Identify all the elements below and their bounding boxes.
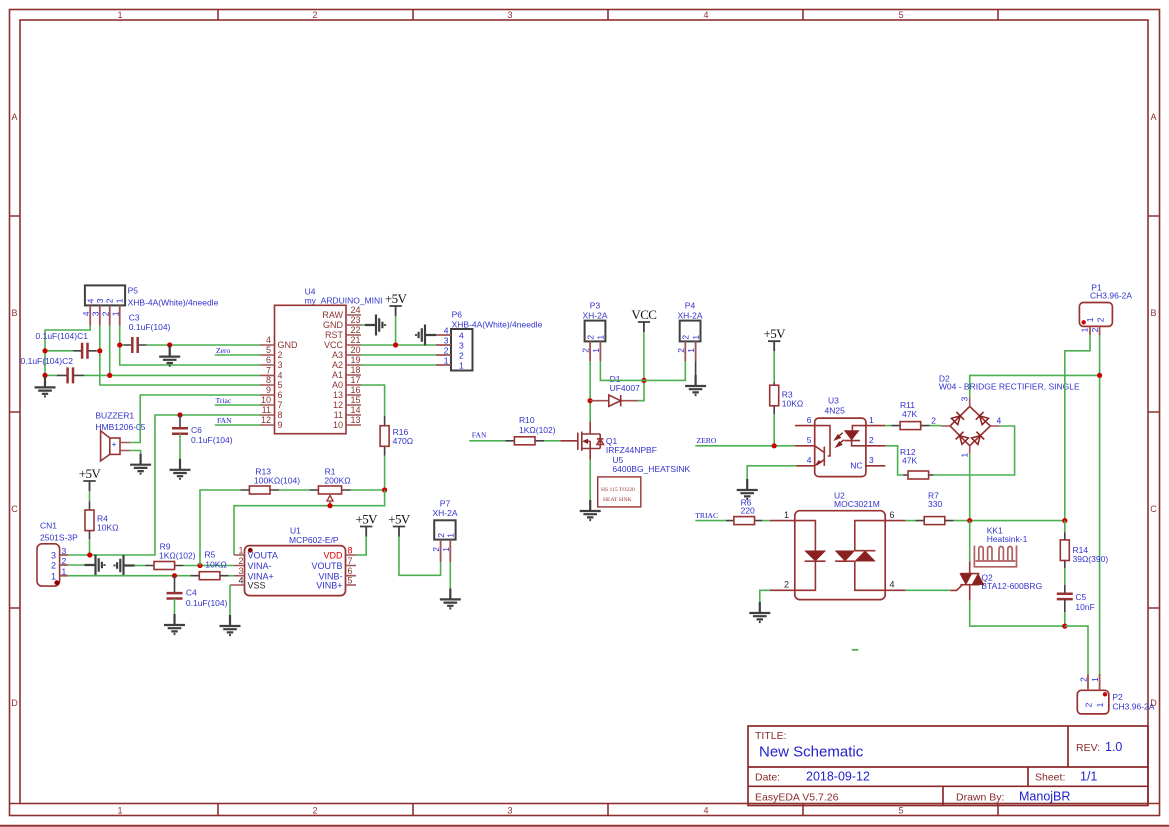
svg-text:1/1: 1/1 [1080,770,1097,784]
svg-text:0.1uF(104): 0.1uF(104) [129,322,171,332]
svg-text:1: 1 [62,567,67,577]
svg-text:8: 8 [348,545,353,555]
svg-text:4: 4 [444,326,449,336]
svg-text:5: 5 [807,435,812,445]
svg-text:1: 1 [117,10,122,20]
svg-text:1.0: 1.0 [1105,740,1122,754]
svg-text:A: A [11,112,17,122]
ground under U3.4 [737,479,758,499]
svg-text:P3: P3 [590,300,601,310]
ground under P4.1 [685,375,706,395]
wire C2 left [45,374,57,376]
resistor R16 [380,426,389,447]
U4 left pin names [278,340,299,430]
svg-text:2: 2 [100,311,110,316]
junction C4 top [172,573,177,578]
U4 left pin numbers [261,335,271,425]
svg-text:GND: GND [323,320,344,330]
svg-text:P5: P5 [128,286,139,296]
wire U4.20 A3 to P6.2 [361,354,436,356]
svg-text:NC: NC [850,461,862,471]
connector P3 box [585,321,606,342]
wire C5 node to P2.2 [1065,626,1088,674]
wire U2.2 to ground [760,590,770,602]
svg-text:2: 2 [869,435,874,445]
P1 pin numbers outside [1080,327,1101,332]
svg-text:5: 5 [278,380,283,390]
wire C6 bottom [179,434,181,459]
ground under U2.2 [749,602,770,622]
resistor R3 leads [773,383,775,415]
svg-text:21: 21 [351,335,361,345]
resistor R7 [924,517,945,525]
svg-text:11: 11 [334,410,343,420]
svg-text:C5: C5 [1075,592,1086,602]
P5 pin lines [90,305,120,325]
wire Zero stub to U4.5 [215,354,260,356]
svg-text:2: 2 [459,350,464,360]
ground at C3 right [159,346,180,366]
svg-text:7: 7 [348,556,353,566]
resistor R14 [1060,540,1069,561]
svg-text:13: 13 [333,390,343,400]
U4 right pin lines [346,315,361,425]
resistor R5 leads [190,575,228,577]
svg-text:1: 1 [869,415,874,425]
junction R3 / ZERO [772,443,777,448]
svg-text:CH3.96-2A: CH3.96-2A [1112,702,1154,712]
svg-text:B: B [11,308,17,318]
svg-text:+: + [112,439,117,449]
heatsink U5 box [598,477,641,507]
svg-text:4N25: 4N25 [825,406,846,416]
junction R1 wiper on U1.1 wire [327,503,332,508]
U1 left pin names [248,551,278,582]
wire +5V to R3 [773,351,775,382]
svg-text:2: 2 [105,298,115,303]
svg-text:3: 3 [91,311,101,316]
svg-text:VINB+: VINB+ [316,581,342,591]
power +5V above VCC junction [385,291,408,316]
svg-text:C6: C6 [191,425,202,435]
wire +5V to U1 VDD pin8 [356,537,366,556]
junction P3.2 / D1 anode / Q1 drain [588,398,593,403]
svg-text:10: 10 [261,395,271,405]
svg-text:1: 1 [1090,677,1100,682]
svg-text:5: 5 [266,345,271,355]
svg-text:D: D [11,698,18,708]
svg-text:1: 1 [596,335,606,340]
P3 pin names inside [585,335,605,340]
svg-text:P4: P4 [685,300,696,310]
wire U4.23 GND stub [361,324,365,326]
capacitor C6 [172,428,188,433]
svg-text:REV:: REV: [1076,742,1100,754]
P5 pin names inside (4 3 2 1) [85,298,124,303]
wire C4 bottom [174,599,176,615]
svg-text:2: 2 [312,10,317,20]
svg-text:2: 2 [51,561,56,571]
svg-text:2: 2 [931,415,936,425]
wire C5 bottom [1064,599,1066,612]
svg-text:12: 12 [261,415,271,425]
connector P5 box [85,285,125,305]
P7 pin numbers outside [431,547,451,552]
svg-text:P6: P6 [452,309,463,319]
wire R13 right to R1 left [279,489,310,491]
potentiometer R1 wiper stem [329,501,331,506]
resistor R10 [514,437,535,445]
junction C1 left [42,348,47,353]
svg-text:XH-2A: XH-2A [432,508,457,518]
svg-text:20: 20 [351,345,361,355]
svg-text:UF4007: UF4007 [610,383,641,393]
svg-text:2: 2 [278,350,283,360]
power +5V above P7 [388,512,411,537]
resistor R13 leads [241,489,280,491]
wire P5.3 vertical to U4.8 row [100,326,260,385]
svg-text:4: 4 [266,335,271,345]
wire R7 right to Q2 node [954,520,1065,522]
junction P1.2 / D2.3 [1097,373,1102,378]
wire Q1 source to ground [589,460,591,501]
svg-text:5: 5 [898,806,903,816]
svg-text:VINA-: VINA- [248,561,272,571]
svg-text:Drawn By:: Drawn By: [956,791,1004,803]
svg-text:2: 2 [1096,317,1106,322]
capacitor C2 leads [57,374,84,376]
U3 pin numbers left [807,415,812,465]
wire P3.1 to P4.2 VCC rail [600,361,685,380]
wire Q2 top from R7 node [969,521,971,562]
svg-text:VDD: VDD [323,551,343,561]
P4 pin names inside [681,335,701,340]
svg-text:5: 5 [898,10,903,20]
svg-text:HS 115 TO220: HS 115 TO220 [601,487,635,493]
svg-text:2501S-3P: 2501S-3P [40,532,78,542]
svg-text:4: 4 [278,371,283,381]
ground rotated at CN1.2 [85,555,105,576]
D2 diode top-left [951,412,964,425]
svg-text:CH3.96-2A: CH3.96-2A [1090,290,1132,300]
svg-text:3: 3 [444,336,449,346]
potentiometer R1 wiper arrow [327,495,333,501]
svg-text:Heatsink-1: Heatsink-1 [987,534,1028,544]
svg-text:1: 1 [1080,327,1090,332]
connector CN1 box [37,544,60,586]
svg-text:HEAT SINK: HEAT SINK [603,497,632,503]
ground under C6 [170,459,191,479]
svg-text:VOUTA: VOUTA [248,551,278,561]
svg-text:W04 - BRIDGE RECTIFIER, SINGLE: W04 - BRIDGE RECTIFIER, SINGLE [939,382,1080,392]
connector P2 box [1077,690,1109,714]
svg-text:6: 6 [890,510,895,520]
wire VCC stem to node [643,332,645,380]
svg-text:TRIAC: TRIAC [695,511,718,520]
svg-text:2: 2 [1090,327,1100,332]
U1 left pin numbers [238,545,243,576]
wire U1 VSS to ground [229,585,231,615]
svg-text:19: 19 [351,355,361,365]
svg-text:1: 1 [117,806,122,816]
U1 right pin numbers [348,545,353,585]
svg-text:2: 2 [676,348,686,353]
connector P7 box [434,520,455,539]
ruler row letters right [1150,112,1157,708]
svg-text:2018-09-12: 2018-09-12 [806,770,870,784]
svg-text:1: 1 [691,335,701,340]
svg-text:0.1uF(104): 0.1uF(104) [191,435,233,445]
wire U2.4 to Q2 gate [906,589,951,591]
wire R12 right to D2.4 loop [934,426,1015,475]
wire Triac stub to U4.10 [215,404,260,406]
svg-text:1: 1 [591,348,601,353]
transistor Q2 triac symbol [950,561,984,601]
svg-text:1: 1 [110,311,120,316]
svg-text:24: 24 [351,305,361,315]
svg-text:GND: GND [278,340,299,350]
svg-text:10nF: 10nF [1075,602,1094,612]
junction C3 right gnd tap [167,342,172,347]
junction +5V VCC [393,342,398,347]
wire U2.6 to R7 [906,520,916,522]
svg-text:6: 6 [807,415,812,425]
svg-text:17: 17 [351,375,361,385]
svg-text:my_ARDUINO_MINI: my_ARDUINO_MINI [305,295,383,305]
svg-text:VCC: VCC [324,340,344,350]
ground under C2 left column [35,376,56,396]
resistor R13 [249,486,270,494]
CN1 pin lines [60,555,69,576]
P4 pin numbers outside [676,348,696,353]
svg-text:Zero: Zero [216,346,231,355]
svg-text:FAN: FAN [472,430,487,439]
svg-text:P2: P2 [1112,692,1123,702]
wire C1 left [45,350,73,352]
P2 pin lines [1088,674,1100,690]
ground under Q1 [580,500,601,520]
svg-text:ZERO: ZERO [697,436,717,445]
svg-text:1: 1 [444,356,449,366]
svg-text:MOC3021M: MOC3021M [834,499,880,509]
svg-text:12: 12 [333,400,343,410]
D2 pin leads [942,397,1000,454]
svg-text:15: 15 [351,395,361,405]
wire +5V to VCC net [395,316,397,345]
svg-text:3: 3 [507,10,512,20]
svg-text:TITLE:: TITLE: [755,730,787,742]
junction C1 right on P5.3 [97,348,102,353]
junction C6 top [177,412,182,417]
wire D2.1 down to R7 node [969,454,971,521]
svg-text:VSS: VSS [248,581,266,591]
svg-text:2: 2 [585,335,595,340]
svg-text:R5: R5 [205,550,216,560]
wire P4.1 stem to ground [695,361,697,375]
capacitor C2 [68,367,73,383]
svg-text:XHB-4A(White)/4needle: XHB-4A(White)/4needle [452,319,543,329]
junction R14 top / P1.1 rail [1062,518,1067,523]
svg-text:1: 1 [441,547,451,552]
svg-text:VCC: VCC [631,307,656,322]
svg-text:C: C [1150,504,1157,514]
wire TRIAC stub to R6 [695,520,726,522]
wire U4.9 to buzzer plus [130,395,260,443]
capacitor C3 [132,337,137,353]
ground under P7.1 [440,588,461,608]
resistor R11 leads [891,425,929,427]
wire C2 right to P5.2 [84,374,110,376]
resistor R4 [85,510,94,531]
svg-text:A: A [1150,112,1156,122]
capacitor C4 stem [174,576,176,593]
connector P6 box [451,329,473,371]
svg-text:4: 4 [703,806,708,816]
svg-text:2: 2 [431,547,441,552]
P7 pin lines [441,540,451,562]
wire R13 left down to R9 node [200,490,241,566]
Q1 body arrow [582,439,588,444]
svg-text:2: 2 [444,346,449,356]
svg-text:4: 4 [459,330,464,340]
wire R4 bottom to CN1.3 row [89,539,91,555]
svg-text:1: 1 [1085,317,1095,322]
junction C2 left [42,373,47,378]
svg-text:7: 7 [266,365,271,375]
wire ZERO to U3.5 [695,445,795,447]
P7 pin names inside [436,533,456,538]
wire CN1.1 to R5 row [68,575,190,577]
stray net stub below U2 [852,649,859,651]
U3 right pin lines [866,426,885,466]
svg-text:1: 1 [238,545,243,555]
svg-text:0.1uF(104)C1: 0.1uF(104)C1 [36,331,89,341]
P2 pin1 marker dot [1103,692,1107,696]
svg-text:8: 8 [278,410,283,420]
P2 pin numbers outside [1079,677,1101,682]
svg-text:HMB1206-05: HMB1206-05 [95,422,145,432]
svg-text:200KΩ: 200KΩ [324,475,350,485]
svg-text:Triac: Triac [216,396,232,405]
svg-text:CN1: CN1 [40,521,57,531]
P3 pin lines [590,341,600,361]
svg-text:1KΩ(102): 1KΩ(102) [159,551,196,561]
svg-text:4: 4 [703,10,708,20]
svg-text:6: 6 [278,390,283,400]
svg-text:3: 3 [51,551,56,561]
wire C3 right / GND net to U4.4 [147,344,260,346]
wire R14 to C5 [1064,568,1066,585]
U4 left pin lines [260,345,275,425]
buzzer terminal leads [120,443,130,451]
wire +5V to P7.2 [399,537,441,576]
wire U4.21 VCC to P6.3 [361,344,436,346]
capacitor C5 [1057,594,1073,599]
svg-text:Sheet:: Sheet: [1035,772,1065,784]
svg-text:8: 8 [266,375,271,385]
svg-text:XH-2A: XH-2A [582,310,607,320]
svg-text:1: 1 [51,571,56,581]
P1 pin names inside [1085,317,1106,322]
wire R5 right to U1.3 [229,575,234,577]
diode D1 [609,395,621,406]
resistor R7 leads [915,520,953,522]
bridge rectifier D2 diamond [950,406,990,445]
svg-text:2: 2 [581,348,591,353]
svg-text:A3: A3 [332,350,343,360]
wire FAN stub to U4.12 [215,424,260,426]
svg-text:39Ω(390): 39Ω(390) [1073,554,1109,564]
wire P5.1 to C3 left [120,344,124,346]
svg-text:XHB-4A(White)/4needle: XHB-4A(White)/4needle [128,297,219,307]
diode D1 leads [590,400,638,402]
ground buzzer [130,454,151,474]
wire +5V to R4 [89,491,91,501]
P6 pin numbers outside [444,326,449,366]
wire P5.4 to C1/C2 left column [45,326,90,376]
svg-text:VOUTB: VOUTB [311,561,342,571]
svg-text:10KΩ: 10KΩ [97,523,118,533]
svg-text:3: 3 [95,298,105,303]
svg-text:3: 3 [278,360,283,370]
resistor R9 [154,562,175,570]
svg-text:XH-2A: XH-2A [677,310,702,320]
resistor R9 leads [145,565,183,567]
wire U4.19 A2 to P6.1 [361,364,436,366]
svg-text:IRFZ44NPBF: IRFZ44NPBF [606,445,657,455]
power +5V above U1 VDD [355,512,378,537]
wire P5.1 vertical to U4.6 row [120,326,260,365]
wire R11 right to D2.2 [930,425,942,427]
D2 diode bottom-right [971,432,984,445]
svg-text:10KΩ: 10KΩ [205,560,226,570]
svg-text:A2: A2 [332,360,343,370]
capacitor C5 stem [1064,585,1066,594]
ruler column numbers bottom [117,806,903,816]
U3 emitter arrow [815,460,823,466]
junction C5 bottom node [1062,624,1067,629]
U3 pin numbers right [869,415,874,465]
resistor R11 [900,422,921,430]
CN1 pin1 marker dot [54,580,59,585]
svg-text:2: 2 [681,335,691,340]
power +5V above R3 [763,326,786,351]
wire P1.2 down long rail [1099,335,1101,674]
svg-text:BUZZER1: BUZZER1 [95,411,134,421]
svg-text:C4: C4 [186,587,197,597]
svg-text:C: C [11,504,18,514]
wire R14 top lead [1064,521,1066,533]
svg-text:2: 2 [238,556,243,566]
svg-text:47K: 47K [902,409,917,419]
svg-text:9: 9 [278,420,283,430]
wire CN1.2 to ground arrow [68,564,84,566]
CN1 pin numbers outside [62,546,67,577]
U3 left pin lines [795,426,815,466]
svg-text:7: 7 [278,400,283,410]
U2 LED symbol [795,521,826,591]
svg-text:ManojBR: ManojBR [1019,789,1070,803]
connector P1 box [1079,303,1112,327]
resistor R6 leads [726,520,762,522]
U4 right pin names [322,310,343,430]
ruler column numbers top [117,10,903,20]
P6 pin lines [436,335,451,365]
svg-text:22: 22 [351,325,361,335]
svg-text:0.1uF(104): 0.1uF(104) [186,598,228,608]
junction C2 right on P5.2 [107,373,112,378]
svg-text:1: 1 [446,533,456,538]
